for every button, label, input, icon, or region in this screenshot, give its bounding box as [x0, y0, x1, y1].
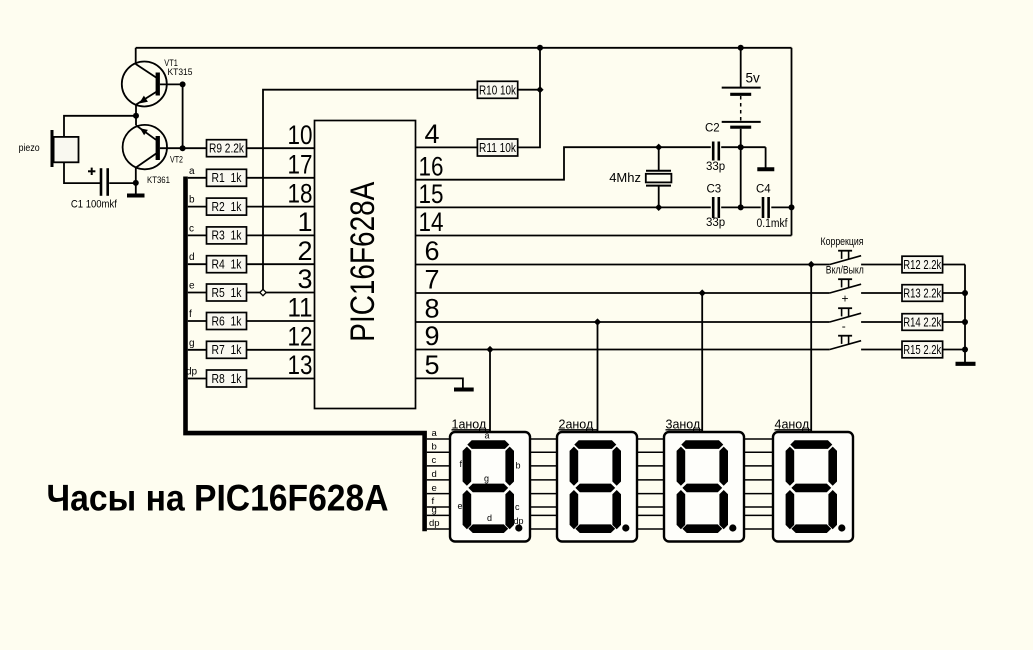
ground right: [956, 362, 976, 366]
svg-text:c: c: [515, 502, 520, 512]
wire pin8: [416, 321, 830, 323]
svg-text:R15 2.2k: R15 2.2k: [903, 343, 942, 357]
wire segment ladder: [745, 451, 774, 453]
svg-text:9: 9: [425, 321, 440, 351]
wire anode drop display 4: [810, 265, 812, 433]
svg-text:R4 1k: R4 1k: [212, 258, 243, 272]
svg-text:R14 2.2k: R14 2.2k: [903, 315, 942, 329]
resistor R8: [207, 370, 247, 387]
svg-text:Часы на PIC16F628A: Часы на PIC16F628A: [47, 478, 389, 519]
svg-text:R1 1k: R1 1k: [212, 171, 243, 185]
transistor VT2: [123, 125, 167, 169]
svg-text:33p: 33p: [706, 217, 725, 229]
svg-text:10: 10: [288, 120, 313, 150]
wire piezo bottom: [64, 162, 100, 183]
svg-text:Коррекция: Коррекция: [821, 236, 864, 248]
svg-text:33p: 33p: [706, 161, 725, 173]
wire switch 2 to resistor: [861, 292, 902, 294]
resistor R4: [207, 256, 247, 273]
svg-text:13: 13: [288, 350, 313, 380]
wire C3-C4 segment: [721, 206, 761, 208]
wire segment ladder: [637, 506, 664, 508]
wire R3 to IC: [247, 234, 315, 236]
wire segment ladder: [427, 528, 450, 530]
wire segment ladder: [745, 514, 774, 516]
wire bus stub dp: [188, 378, 207, 380]
wire segment ladder: [745, 465, 774, 467]
resistor R7: [207, 341, 247, 358]
wire right common vertical: [964, 265, 966, 364]
svg-text:R2 1k: R2 1k: [212, 200, 243, 214]
svg-text:R3 1k: R3 1k: [212, 229, 243, 243]
svg-text:KT361: KT361: [147, 175, 170, 186]
node battery bottom junction: [738, 204, 744, 210]
svg-text:g: g: [484, 474, 489, 484]
svg-text:R6 1k: R6 1k: [212, 314, 243, 328]
node base R9 junction: [180, 145, 186, 151]
display HL3: [664, 432, 744, 542]
wire R9 to IC: [247, 147, 315, 149]
svg-text:Вкл/Выкл: Вкл/Выкл: [826, 265, 864, 277]
svg-text:+: +: [842, 292, 849, 306]
svg-text:b: b: [516, 461, 521, 471]
svg-text:C3: C3: [707, 183, 722, 195]
wire anode drop display 2: [597, 322, 599, 432]
svg-text:b: b: [189, 195, 195, 206]
svg-text:g: g: [432, 505, 437, 516]
wire pin7: [416, 292, 830, 294]
wire VT2 base to R9: [160, 147, 207, 149]
svg-text:R5 1k: R5 1k: [212, 286, 243, 300]
wire segment ladder: [745, 493, 774, 495]
wire segment ladder: [427, 493, 450, 495]
node VT2 collector junction: [133, 180, 139, 186]
wire segment ladder: [530, 479, 557, 481]
display HL2: [557, 432, 637, 542]
wire bus stub c: [188, 234, 207, 236]
svg-text:c: c: [432, 455, 437, 466]
svg-text:6: 6: [425, 236, 440, 266]
svg-text:g: g: [189, 338, 195, 349]
wire switch 1 to resistor: [861, 264, 902, 266]
svg-text:C4: C4: [756, 183, 771, 195]
capacitor C4: [763, 197, 769, 218]
svg-text:PIC16F628A: PIC16F628A: [344, 181, 382, 341]
svg-text:R8 1k: R8 1k: [212, 372, 243, 386]
svg-text:5: 5: [425, 350, 440, 380]
wire R4 to IC: [247, 263, 315, 265]
wire segment ladder: [530, 506, 557, 508]
resistor R9: [207, 140, 247, 157]
wire R12 right: [943, 264, 965, 266]
wire R8 to IC: [247, 378, 315, 380]
wire segment ladder: [637, 438, 664, 440]
wire segment bus (thick): [186, 177, 425, 532]
node R10 junction: [536, 86, 543, 93]
wire segment ladder: [530, 465, 557, 467]
wire bus stub g: [188, 349, 207, 351]
wire R15 right: [943, 349, 965, 351]
svg-text:d: d: [432, 469, 437, 480]
wire segment ladder: [745, 479, 774, 481]
wire segment ladder: [637, 528, 664, 530]
capacitor C1: [88, 168, 108, 196]
node battery mid junction: [738, 144, 744, 150]
resistor R11: [477, 139, 517, 156]
wire segment ladder: [427, 451, 450, 453]
svg-text:4: 4: [425, 119, 440, 149]
node crystal bottom junction: [655, 204, 662, 211]
node common junction: [962, 347, 968, 353]
wire pin14: [416, 235, 792, 237]
wire segment ladder: [637, 514, 664, 516]
wire R1 to IC: [247, 177, 315, 179]
wire R7 to IC: [247, 349, 315, 351]
svg-text:12: 12: [288, 322, 313, 352]
wire pin16: [416, 147, 711, 180]
resistor R2: [207, 198, 247, 215]
svg-text:KT315: KT315: [168, 67, 193, 78]
battery GB1 5v: [722, 48, 761, 208]
wire pin4 to R11: [416, 146, 478, 148]
wire segment ladder: [427, 465, 450, 467]
wire R11 to x540: [518, 48, 540, 148]
wire segment ladder: [427, 506, 450, 508]
svg-text:c: c: [189, 223, 194, 234]
node VT1 base junction: [180, 81, 186, 87]
wire switch 4 to resistor: [861, 349, 902, 351]
svg-text:-: -: [842, 319, 846, 333]
resistor R3: [207, 227, 247, 244]
ground at C2: [757, 147, 774, 169]
ground at C1: [127, 183, 145, 195]
svg-text:R10 10k: R10 10k: [479, 83, 517, 97]
svg-text:R12 2.2k: R12 2.2k: [903, 258, 942, 272]
wire segment ladder: [530, 438, 557, 440]
crystal ZQ1 4Mhz: [646, 147, 672, 207]
node piezo emitter junction: [133, 113, 139, 119]
wire segment ladder: [530, 514, 557, 516]
node anode junction 3: [594, 318, 601, 325]
wire pin6: [416, 264, 830, 266]
wire right vertical +5v: [791, 48, 793, 236]
node common junction: [962, 319, 968, 325]
switch S1 Коррекция: [830, 251, 861, 265]
svg-text:8: 8: [425, 294, 440, 324]
svg-text:R9 2.2k: R9 2.2k: [209, 142, 245, 156]
svg-text:dp: dp: [429, 518, 440, 529]
svg-text:VT2: VT2: [170, 155, 183, 165]
wire segment ladder: [745, 506, 774, 508]
wire R6 to IC: [247, 320, 315, 322]
wire pin9: [416, 349, 830, 351]
svg-text:5v: 5v: [746, 71, 761, 86]
svg-text:C2: C2: [705, 123, 720, 135]
wire segment ladder: [530, 493, 557, 495]
wire osc segment: [721, 146, 765, 148]
svg-text:a: a: [432, 428, 438, 439]
wire anode drop display 1: [489, 350, 491, 433]
wire R13 right: [943, 292, 965, 294]
svg-text:1: 1: [297, 207, 312, 237]
wire R10 left to pin3 node: [263, 90, 477, 293]
wire R2 to IC: [247, 206, 315, 208]
wire C4 right segment: [771, 206, 791, 208]
svg-text:b: b: [432, 442, 437, 453]
wire VT2 collector down: [135, 167, 137, 183]
wire segment ladder: [637, 479, 664, 481]
svg-text:15: 15: [419, 179, 444, 209]
wire segment ladder: [427, 479, 450, 481]
wire segment ladder: [530, 451, 557, 453]
svg-text:dp: dp: [514, 516, 524, 526]
wire segment ladder: [427, 514, 450, 516]
svg-text:R13 2.2k: R13 2.2k: [903, 286, 942, 300]
wire bus stub f: [188, 320, 207, 322]
op-amp U1 PIC16F628A body: [315, 121, 416, 409]
wire segment ladder: [637, 493, 664, 495]
wire segment ladder: [637, 451, 664, 453]
wire VT1 base to node: [160, 83, 183, 85]
svg-text:a: a: [189, 166, 195, 177]
wire pin15: [416, 206, 711, 208]
svg-text:18: 18: [288, 178, 313, 208]
wire bus stub b: [188, 206, 207, 208]
wire VT1 collector to rail: [135, 48, 137, 65]
node crystal top junction: [655, 144, 662, 151]
wire R10 right: [518, 89, 540, 91]
node anode junction 2: [699, 289, 706, 296]
transistor VT1: [122, 62, 167, 107]
piezo element: [52, 130, 79, 167]
resistor R12: [902, 256, 943, 273]
resistor R6: [207, 313, 247, 330]
node junction top rail x540: [537, 45, 543, 51]
svg-text:C1 100mkf: C1 100mkf: [71, 199, 118, 211]
svg-text:3: 3: [297, 264, 312, 294]
wire anode drop display 3: [701, 293, 703, 432]
svg-text:e: e: [189, 281, 195, 292]
capacitor C2: [713, 142, 719, 161]
svg-text:17: 17: [288, 150, 313, 180]
svg-text:e: e: [458, 501, 463, 511]
svg-text:d: d: [487, 513, 492, 523]
wire R14 right: [943, 321, 965, 323]
node anode junction 1: [808, 261, 815, 268]
wire C1 to ground node: [109, 182, 136, 184]
resistor R15: [902, 341, 943, 358]
wire base link vertical: [182, 84, 184, 148]
resistor R10: [477, 81, 517, 98]
resistor R13: [902, 285, 943, 302]
resistor R1: [207, 169, 247, 186]
svg-text:R11 10k: R11 10k: [479, 141, 517, 155]
node anode junction 4: [486, 346, 493, 353]
switch S4 -: [830, 336, 861, 350]
wire segment ladder: [745, 438, 774, 440]
svg-text:0.1mkf: 0.1mkf: [757, 218, 789, 230]
svg-text:e: e: [432, 483, 437, 494]
wire bus stub a: [188, 177, 207, 179]
node right rail junction: [789, 204, 795, 210]
resistor R5: [207, 284, 247, 301]
svg-text:4Mhz: 4Mhz: [609, 170, 641, 185]
svg-text:7: 7: [425, 265, 440, 295]
node common junction: [962, 290, 968, 296]
capacitor C3: [713, 197, 719, 218]
resistor R14: [902, 314, 943, 331]
svg-text:a: a: [485, 431, 490, 441]
svg-text:2: 2: [297, 236, 312, 266]
node open junction pin3: [260, 289, 266, 295]
wire segment ladder: [530, 528, 557, 530]
wire bus stub e: [188, 292, 207, 294]
wire +5v top rail: [136, 47, 792, 49]
wire bus stub d: [188, 263, 207, 265]
display HL4: [773, 432, 853, 542]
switch S3 +: [830, 308, 861, 322]
wire segment ladder: [745, 528, 774, 530]
svg-text:16: 16: [419, 151, 444, 181]
svg-text:11: 11: [288, 293, 313, 323]
wire segment ladder: [427, 438, 450, 440]
svg-text:piezo: piezo: [19, 143, 40, 154]
display HL1: [450, 432, 530, 542]
wire switch 3 to resistor: [861, 321, 902, 323]
svg-text:f: f: [189, 309, 192, 320]
svg-text:R7 1k: R7 1k: [212, 343, 243, 357]
node junction top rail battery: [738, 45, 744, 51]
ground at pin5: [454, 388, 474, 392]
svg-text:d: d: [189, 252, 195, 263]
wire piezo top: [64, 116, 136, 137]
switch S2 Вкл/Выкл: [830, 279, 861, 293]
wire segment ladder: [637, 465, 664, 467]
wire pin5: [416, 378, 463, 388]
svg-text:14: 14: [419, 207, 444, 237]
wire R5 to IC: [247, 292, 315, 294]
wire VT1 emitter down: [135, 104, 137, 125]
